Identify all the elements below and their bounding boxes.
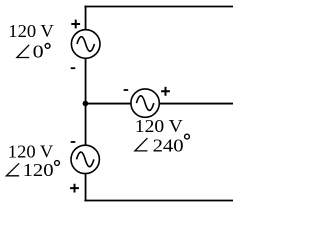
sine wave inside V1: [77, 37, 94, 52]
minus polarity mark of V2: [124, 89, 129, 91]
wire: left vertical from V1 bottom terminal to V3 top terminal: [85, 58, 87, 145]
minus polarity mark of V3: [71, 141, 76, 143]
svg-text:120: 120: [23, 160, 54, 180]
svg-text:0: 0: [33, 41, 44, 61]
wire: middle horizontal from V2 right terminal to right edge: [159, 103, 233, 105]
plus polarity mark of V3: [70, 184, 79, 193]
angle symbol of V3 label: [6, 163, 19, 176]
wire: bottom horizontal to right edge: [84, 200, 233, 202]
svg-text:120 V: 120 V: [135, 116, 183, 136]
sine wave inside V3: [77, 152, 94, 167]
wire: left vertical, top wire corner down to V1 top terminal: [85, 6, 87, 30]
angle symbol of V2 label: [135, 138, 148, 151]
svg-text:120 V: 120 V: [8, 21, 54, 41]
junction node dot (neutral): [83, 101, 89, 107]
degree circle of V2 phase: [185, 134, 190, 139]
plus polarity mark of V2: [161, 87, 170, 96]
minus polarity mark of V1: [71, 67, 76, 69]
svg-text:120 V: 120 V: [8, 142, 54, 162]
wire: left vertical from V3 bottom terminal to bottom wire corner: [85, 174, 87, 201]
AC source V2 (120 V angle 240) circle: [131, 89, 159, 117]
degree circle of V3 phase: [55, 161, 60, 166]
wire: top horizontal from node A to right edge: [84, 6, 233, 8]
AC source V3 (120 V angle 120) circle: [71, 145, 99, 173]
angle symbol of V1 label: [17, 45, 29, 58]
sine wave inside V2: [136, 96, 153, 111]
AC source V1 (120 V angle 0) circle: [71, 30, 100, 59]
wire: middle horizontal from neutral node to V2 left terminal: [85, 103, 130, 105]
plus polarity mark of V1: [71, 20, 80, 29]
degree circle of V1 phase: [45, 44, 50, 49]
svg-text:240: 240: [153, 136, 184, 156]
